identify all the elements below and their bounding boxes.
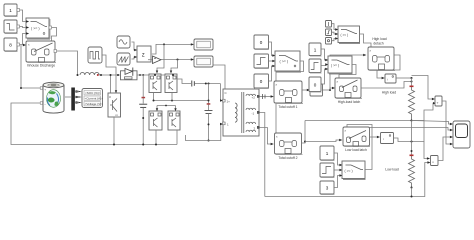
svg-text:1+: 1+ (227, 100, 231, 104)
switch block for total cutoff 1 (275, 51, 301, 72)
red measurement node (97, 74, 99, 76)
constant 0 block (high load switch) (309, 77, 322, 92)
svg-text:Total cutoff 1: Total cutoff 1 (278, 105, 297, 109)
wire to transformer primary plus (219, 84, 222, 101)
wire battery minus to bottom bus (11, 103, 177, 145)
wire latch control tap to scope input 2 (370, 128, 451, 131)
wire const1 to switch1 in1 (20, 10, 26, 22)
H-bridge mosfet upper-right (165, 74, 177, 93)
wire switch L to latch control (347, 125, 372, 170)
tiny step (326, 29, 332, 36)
battery block (cylinder icon) (40, 82, 64, 113)
H-bridge mosfet upper-left (149, 74, 161, 93)
constant block value 1 (4, 4, 20, 17)
wire VML out to scope input 3 (438, 137, 451, 161)
wire step1 to switch1 in2 (20, 27, 26, 28)
current measurement block VM2 (385, 74, 396, 83)
breaker block B high-load switch (335, 78, 362, 99)
constant block value 8 (4, 38, 20, 52)
breaker block Total cutoff 2 (275, 133, 303, 155)
svg-text:z: z (142, 53, 145, 59)
constant 1 block (high load switch) (309, 43, 322, 56)
wire TC2 out node (302, 121, 306, 144)
bus selector bar (71, 88, 75, 111)
H-bridge mosfet lower-left (149, 111, 162, 130)
gate wire right leg (171, 60, 178, 73)
tiny constant 0 (326, 38, 332, 45)
bottom return bus right (265, 163, 428, 197)
svg-text:1: 1 (9, 8, 12, 13)
wire z out to scope A (152, 44, 193, 54)
svg-text:1: 1 (314, 48, 317, 53)
svg-text:-1: -1 (252, 112, 255, 116)
step source (low load) (320, 163, 335, 178)
svg-text:0: 0 (314, 83, 317, 88)
boost mosfet block Q1 (108, 93, 121, 117)
sawtooth repeating sequence block (117, 53, 130, 65)
series blocking capacitor on output rail (192, 81, 221, 87)
wires sources to switch T1 (269, 42, 274, 56)
wire sawtooth to relay (132, 57, 137, 59)
wires sources to switch L (335, 153, 341, 165)
wire bus to mosfet drain (110, 75, 112, 93)
wire battery plus up to breaker input (21, 45, 41, 88)
current measurement block VM1 (310, 84, 323, 96)
step source Step1 (step down) (4, 20, 20, 34)
wire transformer 2 to total cutoff 2 (260, 128, 272, 145)
SEC3 pwm and bridge (117, 36, 225, 146)
wire VM1 to high load feeders (323, 88, 334, 90)
current measurement block VMM (381, 133, 394, 144)
bridge top rail taps (154, 74, 156, 76)
wire switch B to breaker B control (339, 65, 356, 78)
SEC2 battery and boost converter (11, 47, 177, 146)
connecting segment load node to meter column (423, 121, 425, 142)
H-bridge mosfet lower-right (168, 111, 180, 130)
svg-text:3: 3 (326, 186, 329, 191)
wire breaker B out to load top node (362, 82, 412, 89)
svg-text:+2: +2 (252, 96, 256, 100)
wire TC1 out to current meter (303, 89, 308, 91)
capacitor C1 branch (139, 75, 147, 146)
control wire down to total cutoff 2 (275, 104, 277, 133)
wire VM3 to scope input 4 (442, 101, 451, 144)
wire latch out to current meter VMM (370, 136, 378, 138)
bridge output jog down to series rail (178, 79, 192, 84)
wire load bottom to VM3 minus (412, 103, 434, 120)
wire TC2 node to low load latch (305, 140, 340, 142)
svg-text:+: + (44, 88, 46, 92)
step source (high load switch) (309, 59, 322, 73)
svg-text:( >= ): ( >= ) (331, 63, 339, 67)
comparator op-amp triangle (148, 56, 161, 64)
wire transformer -1 down to return bus (260, 113, 265, 197)
bridge bottom legs to bus (155, 130, 157, 145)
svg-text:<Voltage (V)>: <Voltage (V)> (85, 102, 104, 106)
signal labels block SOC Current Voltage (82, 89, 103, 108)
svg-text:0: 0 (260, 40, 263, 45)
wires tiny sources to switch A (332, 24, 336, 30)
wire battery measure port to bus selector (65, 96, 71, 98)
wire breaker A out to VM2 (377, 55, 400, 78)
wire load bottom to scope input 1 (412, 121, 451, 125)
svg-text:High load: High load (382, 90, 396, 94)
wire load top to VM3 plus (412, 76, 433, 100)
wire transformer +2 to total cutoff 1 (260, 94, 274, 99)
svg-text:Total cutoff 2: Total cutoff 2 (278, 156, 297, 160)
wire mosfet source to bottom bus (113, 117, 115, 145)
wires sources to switch B (322, 49, 327, 60)
scope block Scope1 (453, 121, 470, 148)
bridge lower gate rail (157, 105, 176, 107)
diode D1 block on bus (121, 68, 138, 80)
wire switch A to breaker A control (360, 34, 372, 47)
svg-text:( >= ): ( >= ) (341, 33, 349, 37)
relay z block (137, 46, 151, 62)
scope block A (194, 39, 213, 50)
switch block L (low load) (342, 161, 366, 180)
bridge mid rail upper to cap node (154, 93, 209, 101)
svg-text:detach: detach (373, 41, 383, 45)
switch block A (high load detach) (338, 26, 360, 44)
svg-text:8: 8 (9, 43, 12, 48)
svg-text:−: − (44, 102, 46, 106)
switch block Switch1 (26, 18, 52, 39)
constant 1 block (low load) (320, 146, 335, 161)
DC link capacitor C2 branch (205, 84, 213, 142)
bus junction dots around diode (117, 74, 119, 76)
wire comparator out to scope B (161, 59, 193, 61)
svg-text:<SOC (%)>: <SOC (%)> (85, 91, 101, 95)
long return wire to load stack bottom (305, 120, 412, 122)
low load resistor R2 (409, 121, 415, 198)
high load resistor R1 (409, 78, 415, 122)
wire switch out to breaker TC1 control (276, 61, 304, 81)
svg-text:0: 0 (260, 79, 263, 84)
breaker block A high load detach (368, 47, 395, 71)
wire const8 to switch1 in3 (20, 34, 26, 45)
svg-text:( >= ): ( >= ) (31, 27, 40, 31)
sine wave source block (117, 36, 130, 48)
pulse generator block (88, 47, 102, 63)
SEC5 high load side (309, 21, 453, 146)
svg-text:High-load latch: High-load latch (338, 100, 361, 104)
wire switch1 out to breaker control (52, 28, 57, 41)
wire scope B to transformer measure port (214, 65, 226, 91)
svg-text:Low load latch: Low load latch (345, 148, 367, 152)
svg-text:Inhouse Discharge: Inhouse Discharge (27, 64, 55, 68)
svg-text:( >= ): ( >= ) (345, 169, 353, 173)
voltage measurement block VM3 (435, 96, 442, 106)
lower gate stubs (156, 106, 158, 109)
lower primary return rail (186, 135, 209, 141)
constant 0 block (cutoff1 a) (254, 35, 269, 50)
constant 0 block (cutoff1 b) (254, 74, 269, 89)
transformer block T1 (223, 89, 260, 136)
wire to transformer primary minus (209, 124, 222, 141)
SEC4 transformer and cutoffs (223, 35, 431, 197)
wire VMM out to low load stack (394, 138, 428, 159)
constant 3 block (low load) (320, 181, 335, 195)
SEC1 sources and inhouse discharge (4, 4, 78, 89)
wire pulse generator to mosfet gate (103, 55, 117, 93)
main bus node and inductor L1 (76, 74, 78, 76)
breaker block Inhouse Discharge (23, 41, 57, 63)
svg-text:1: 1 (326, 151, 329, 156)
wire VM2 to load top node (397, 77, 412, 79)
arrows bus selector to labels (76, 90, 82, 92)
gate wire left leg (157, 44, 164, 72)
switch block B (high-load switch) (328, 56, 353, 74)
scope block B (194, 56, 213, 67)
SEC6 low load side and scope (320, 121, 470, 198)
svg-text:Low load: Low load (385, 167, 399, 171)
breaker block Total cutoff 1 (274, 81, 303, 104)
voltage measurement block VML (431, 156, 439, 166)
svg-text:<Current (A)>: <Current (A)> (85, 97, 104, 101)
step source (cutoff1) (254, 54, 269, 69)
breaker block Low load latch (343, 127, 370, 147)
svg-text:( >= ): ( >= ) (280, 60, 289, 64)
wire breaker out to main bus (57, 51, 78, 75)
wire sine to relay (132, 42, 137, 50)
tiny constant 1 (326, 21, 332, 28)
